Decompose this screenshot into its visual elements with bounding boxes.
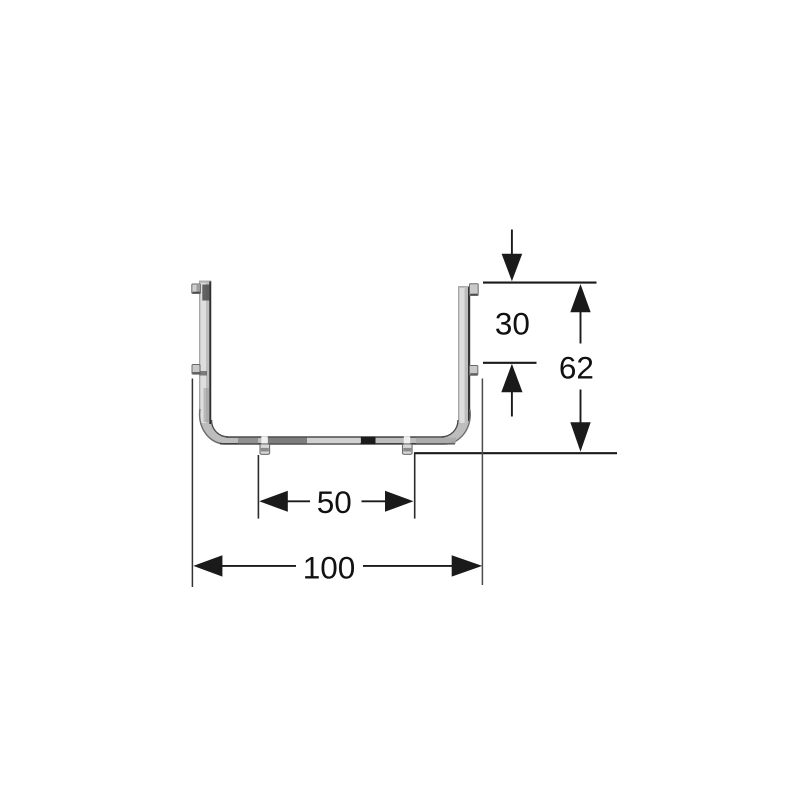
svg-text:100: 100 (303, 549, 356, 585)
bottom tube bottom edge (220, 443, 455, 445)
50 dimension (258, 454, 414, 519)
svg-text:50: 50 (317, 484, 352, 520)
left arrow (193, 555, 222, 576)
right arrow (363, 565, 452, 567)
up arrow below mid line (501, 364, 522, 417)
right wall highlight (460, 288, 465, 423)
100 dimension (192, 379, 482, 588)
bottom tube light segment (307, 438, 360, 444)
extension line left of 50 (257, 455, 259, 519)
nub bottom left (260, 436, 270, 454)
bottom reference line (62 bottom) (414, 452, 617, 454)
right inner corner arc (442, 420, 458, 437)
svg-text:62: 62 (559, 349, 594, 385)
bottom tube right medium segment (416, 438, 456, 444)
left wall lower shade (204, 388, 210, 422)
left wall top dark patch (202, 285, 209, 301)
left inner corner arc (212, 420, 228, 437)
right arrow (362, 500, 386, 502)
extension line right of 50 (414, 454, 416, 519)
left arrow (259, 491, 288, 512)
extension line right of 100 (481, 379, 483, 586)
wire U-profile body (200, 281, 471, 445)
bottom tube top edge (226, 436, 444, 438)
svg-text:30: 30 (495, 306, 530, 342)
left wall inner dark edge (209, 282, 211, 425)
nub bottom right (403, 436, 413, 454)
extension line left of 100 (191, 379, 193, 588)
nub right top (470, 284, 479, 296)
left wall highlight (201, 283, 206, 423)
bottom tube left dark start (238, 438, 258, 444)
right wall outer dark edge (468, 287, 470, 421)
left outer corner arc (200, 409, 226, 444)
bottom tube near-black patch (361, 437, 376, 445)
down arrow above top line (502, 230, 523, 282)
nub left mid (192, 365, 207, 376)
62 dimension line (570, 284, 590, 452)
nub left top (192, 284, 201, 294)
top reference line (483, 282, 597, 284)
right outer corner arc (445, 409, 471, 444)
nub right mid (470, 366, 478, 376)
bottom tube medium dark segment (268, 438, 307, 444)
mid reference line (30 bottom) (483, 362, 537, 364)
